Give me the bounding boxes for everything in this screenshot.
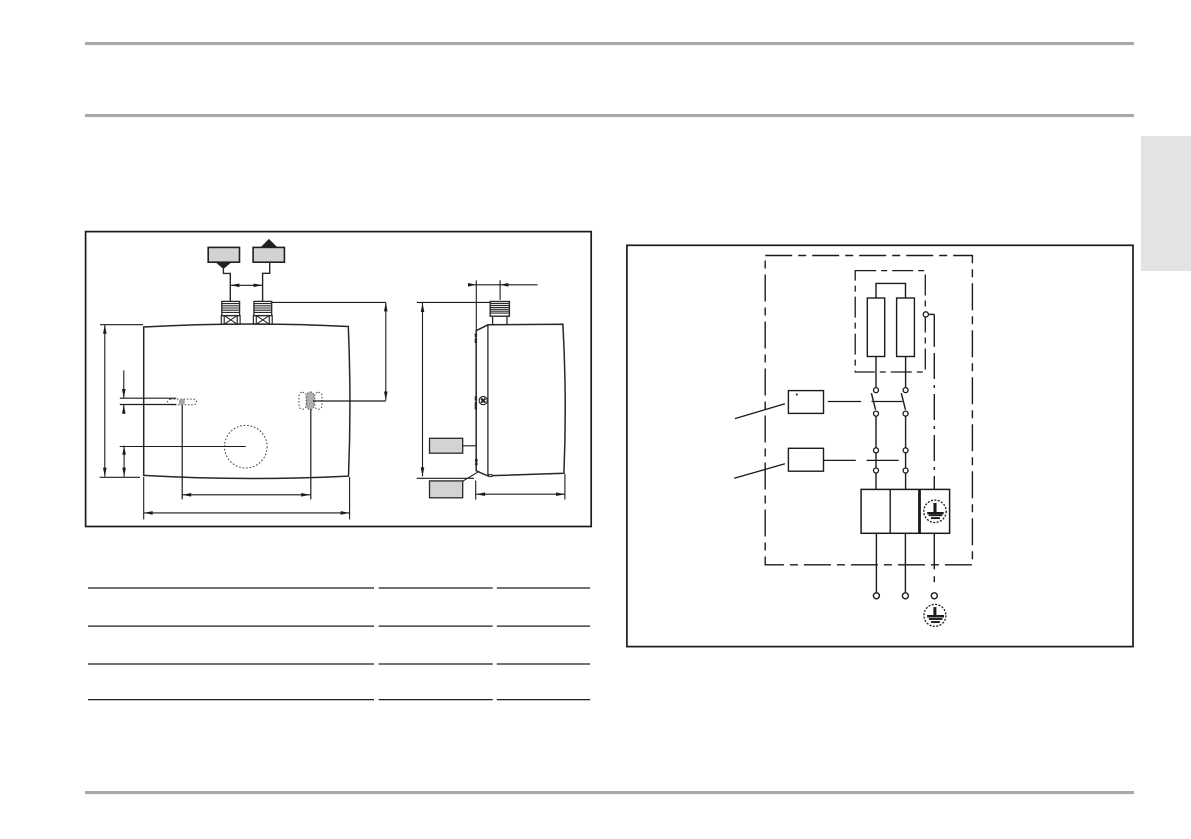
protective earth symbol (924, 604, 946, 626)
outlet label box (208, 247, 239, 262)
wire switch to cutout right (905, 416, 907, 448)
outlet flow triangle (down) (216, 262, 232, 269)
wire cutout to block right (905, 473, 907, 489)
union nut right (253, 316, 272, 325)
cover screw (479, 397, 487, 405)
side label box lower (430, 481, 463, 498)
switch contact lower-left (874, 411, 879, 416)
terminal block (861, 489, 950, 533)
slot edge tick upper (475, 396, 477, 400)
top-to-slot vertical dimension (384, 302, 388, 400)
side tab (1141, 136, 1191, 271)
heater body front outline (144, 324, 350, 479)
cutout contact upper-right (903, 448, 908, 453)
footer rule (85, 791, 1134, 794)
right slot vertical reference (310, 409, 312, 499)
coupling link thermal cutout (824, 459, 899, 461)
slot screw head dot (179, 399, 185, 405)
header rule top (85, 42, 1134, 45)
side height dimension (417, 302, 490, 478)
terminal PE (931, 593, 937, 599)
heater body side outline (476, 324, 565, 476)
switch contact upper-left (874, 388, 879, 393)
left slot vertical reference (181, 405, 183, 499)
wire cutout bridge left (875, 453, 877, 468)
terminal divider 1 (889, 489, 891, 533)
header rule second (85, 114, 1134, 117)
slot edge tick lower (475, 402, 477, 410)
heating element assembly boundary (dash-dot box) (855, 271, 925, 372)
slot top edge extension (120, 397, 177, 399)
wire R2 to switch (905, 357, 907, 388)
body width dimension (144, 477, 350, 519)
outlet leg line (223, 269, 230, 302)
figure 1 frame (86, 232, 592, 527)
terminal L (873, 593, 879, 599)
pressure switch dot (796, 394, 798, 396)
circle centre leader line (120, 446, 246, 448)
node element terminal (923, 312, 928, 317)
side label box upper (430, 438, 463, 453)
bottom notch (489, 475, 492, 477)
switch contact upper-right (903, 388, 908, 393)
inlet flow triangle (up) (260, 239, 277, 248)
circle height dimension (122, 446, 126, 477)
thermal cutout box (788, 448, 823, 471)
vent tick lower (475, 463, 478, 465)
figure 2 frame (627, 245, 1133, 646)
wire supply L (875, 533, 877, 592)
side label leader lower (463, 471, 480, 481)
front cover parting line (487, 325, 489, 476)
table row 3 (88, 663, 374, 665)
terminal N (902, 593, 908, 599)
wire supply N (904, 533, 906, 592)
cutout contact lower-right (903, 468, 908, 473)
wire R1 to switch (875, 357, 877, 388)
heating element R2 (897, 298, 915, 357)
switch contact lower-right (903, 411, 908, 416)
leader to thermal cutout (734, 464, 785, 478)
pressure switch box (788, 391, 823, 414)
table row 4 (88, 699, 374, 701)
side pipe thread (490, 302, 509, 317)
wire element top link (876, 283, 906, 298)
terminal divider 2 (thick) (918, 489, 921, 533)
wire cutout bridge right (905, 453, 907, 468)
switch lever right (901, 393, 905, 410)
heating element R1 (867, 298, 884, 357)
cutout contact lower-left (874, 468, 879, 473)
slot spacing dimension (182, 493, 310, 497)
slot height dimension arrows (122, 370, 126, 413)
PE symbol in terminal block (924, 500, 946, 522)
left mounting slot (dotted capsule) (168, 399, 197, 405)
vent tick upper (475, 459, 478, 462)
table row 1 (88, 587, 374, 589)
side label leader upper (463, 445, 477, 447)
coupling link pressure switch (828, 401, 903, 403)
switch lever left (871, 393, 875, 410)
wire earth internal (dash-dot) (933, 314, 935, 346)
inlet label box (253, 247, 284, 262)
appliance boundary (dash-dot box) (765, 256, 972, 565)
wire node jog (928, 313, 934, 315)
inlet leg line (263, 263, 270, 302)
top vent tick lower (475, 338, 477, 343)
overall height dimension (100, 325, 143, 478)
wire supply PE (dashed) (933, 533, 935, 569)
wire switch to cutout left (875, 416, 877, 448)
pipe spacing dimension (230, 284, 262, 288)
union nut left (221, 316, 240, 325)
right mounting slots (three capsules) (299, 392, 322, 409)
table row 2 (88, 625, 374, 627)
top vent tick upper (475, 334, 477, 338)
right slot leader line (313, 400, 386, 402)
water connection thread right (254, 301, 272, 315)
wire cutout to block left (875, 473, 877, 489)
extension line from inlet top (272, 301, 386, 303)
slot bottom edge extension (120, 404, 177, 406)
leader to pressure switch (735, 404, 785, 419)
cutout contact upper-left (874, 448, 879, 453)
pipe offset dimension (468, 280, 538, 331)
side pipe neck (493, 316, 507, 324)
cable entry circle (dotted) (225, 425, 268, 468)
water connection thread left (222, 301, 240, 315)
depth dimension (476, 474, 565, 500)
right slot filled capsule (307, 392, 314, 410)
